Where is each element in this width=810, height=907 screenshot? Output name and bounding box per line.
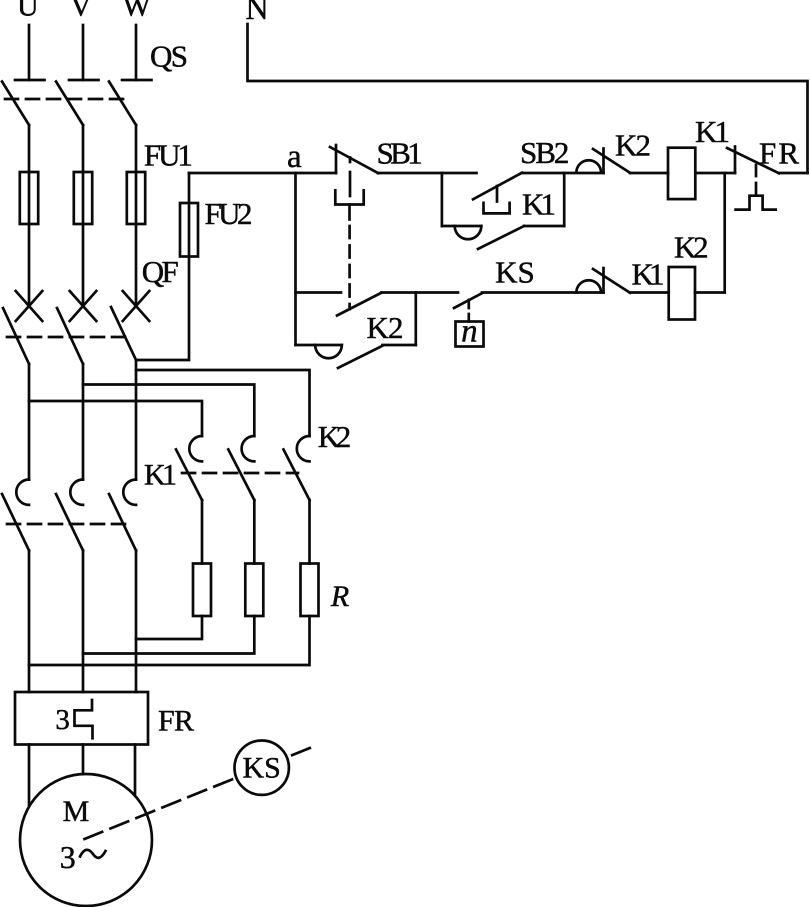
wire U column K1 to FR (28, 551, 31, 693)
svg-text:FU2: FU2 (205, 196, 253, 231)
contact K1 NC blade (593, 269, 630, 293)
wire K1 aux bottom right (524, 225, 564, 228)
switch QS pole U blade (2, 82, 29, 126)
wire U column QS to QF (28, 125, 31, 306)
speed relay KS link (dashed) (85, 748, 312, 840)
pushbutton SB1 link dash upper (349, 158, 352, 163)
contact K2 aux NO blade (338, 346, 383, 368)
contact KS link (dashed) (467, 300, 470, 322)
wire K1 coil to FR contact (695, 172, 735, 175)
contact FR NC blade (727, 148, 779, 173)
contact FR NC fixed tick (734, 147, 737, 174)
svg-text:SB1: SB1 (377, 136, 423, 171)
wire K2 pole 3 to R3 (308, 500, 311, 564)
switch QS pole V blade (56, 82, 83, 126)
thermal relay FR heater symbol (75, 700, 93, 738)
svg-text:R: R (330, 580, 349, 613)
svg-text:K1: K1 (695, 114, 730, 149)
wire K1 NC to K2 coil (630, 291, 669, 294)
svg-text:QS: QS (150, 39, 188, 74)
contact K2 NC fixed tick (602, 149, 605, 174)
svg-text:N: N (245, 0, 268, 26)
wire FU2 tap from W column (136, 173, 189, 360)
contactor K1 main pole U blade (2, 494, 29, 551)
svg-text:FR: FR (158, 705, 194, 738)
wire W column QS to QF (135, 125, 138, 306)
wire U column QF to K1 (28, 364, 31, 480)
contactor K2 main pole 1 arc (189, 436, 202, 461)
contactor K1 main pole V blade (56, 494, 83, 551)
breaker QF mechanical link (dashed) (7, 336, 130, 339)
wire R1 to W column (136, 616, 202, 639)
svg-text:K1: K1 (632, 257, 665, 292)
wire FR to motor terminal 1 (28, 745, 31, 811)
svg-text:QF: QF (142, 254, 179, 289)
svg-text:FU1: FU1 (144, 137, 193, 172)
svg-text:K1: K1 (522, 187, 556, 222)
wire FR contact to N bus (779, 172, 808, 175)
coil K2 (669, 267, 695, 320)
svg-text:K2: K2 (367, 310, 404, 345)
pushbutton SB1 link stem upper (349, 172, 352, 196)
svg-text:U: U (17, 0, 39, 23)
svg-text:K2: K2 (615, 128, 651, 163)
thermal relay FR heater box (15, 692, 148, 745)
switch QS pole U bar (15, 79, 45, 82)
coil K1 (668, 148, 695, 199)
pushbutton SB2 NO blade (473, 173, 522, 200)
wire W column K1 to FR (135, 551, 138, 693)
wire branch V to K2 pole 2 (83, 385, 254, 437)
resistor R3 (301, 564, 319, 617)
resistor R1 (193, 564, 211, 617)
svg-text:a: a (287, 139, 302, 175)
resistor R2 (245, 564, 263, 617)
pushbutton SB1 cap (335, 190, 363, 204)
pushbutton SB2 stem (496, 186, 499, 202)
svg-text:n: n (461, 314, 478, 350)
wire branch U to K2 pole 1 (29, 401, 202, 436)
speed sensor n box (456, 322, 484, 347)
breaker QF pole U cross (16, 291, 43, 321)
wire control row 2 segment 1 (296, 291, 342, 294)
contact K1 aux NO arc (455, 226, 482, 239)
wire control row 2 segment 2 (382, 291, 459, 294)
switch QS mechanical link (dashed) (5, 98, 123, 101)
wire V supply stub (82, 25, 85, 80)
svg-text:KS: KS (495, 255, 535, 290)
contact FR thermal symbol (736, 196, 776, 210)
fuse FU1 pole V (74, 172, 92, 224)
contactor K1 main pole W blade (109, 494, 136, 551)
contactor K1 main pole W arc (123, 480, 136, 505)
contactor K1 main pole V arc (70, 480, 83, 505)
fuse FU2 (180, 203, 198, 257)
wire branch W to K2 pole 3 (136, 370, 310, 436)
wire row2 drop from row1 (723, 173, 726, 293)
contactor K2 main pole 2 blade (228, 450, 254, 501)
fuse FU1 pole W (127, 172, 145, 224)
wire K2 aux right rise (414, 293, 417, 346)
wire K2 NC to K1 coil (630, 172, 668, 175)
motor M circle (20, 774, 152, 906)
wire V column QS to QF (82, 125, 85, 306)
wire V column K1 to FR (82, 551, 85, 693)
wire N drop (248, 24, 808, 173)
switch QS pole W blade (109, 82, 136, 126)
pushbutton SB1 NC fixed tick (335, 145, 338, 173)
wire K1 aux bottom left (442, 225, 481, 228)
contactor K2 main pole 3 arc (297, 436, 310, 461)
wire K2 coil to drop (695, 291, 725, 294)
pushbutton SB1 cap stem lower (348, 205, 351, 220)
wire W supply stub (135, 25, 138, 80)
wire R2 to V column (83, 616, 254, 654)
switch QS pole W bar (122, 79, 152, 82)
contact KS NO blade (454, 293, 482, 308)
breaker QF pole W blade (111, 307, 136, 360)
contact K1 aux NO blade (478, 226, 524, 249)
wire W column QF to K1 (135, 360, 138, 480)
contact K1 NC fixed tick (602, 268, 605, 293)
breaker QF pole W cross (123, 291, 150, 321)
pushbutton SB1 link (dashed) to NO contact (348, 226, 351, 309)
contactor K2 main pole 1 blade (176, 450, 202, 501)
svg-text:K2: K2 (318, 419, 352, 454)
svg-text:KS: KS (243, 752, 281, 785)
wire K2 pole 1 to R1 (201, 500, 204, 564)
svg-text:K2: K2 (674, 230, 709, 265)
pushbutton SB2 cap (484, 203, 510, 214)
pushbutton SB1 NO blade (337, 293, 382, 316)
contactor K2 main pole 2 arc (242, 436, 255, 461)
wire K2 aux bottom right (383, 344, 416, 347)
svg-text:M: M (63, 795, 90, 828)
breaker QF pole V cross (70, 291, 97, 321)
svg-text:W: W (123, 0, 152, 23)
wire R3 to U column (29, 616, 310, 665)
contact K2 NC blade (593, 149, 630, 173)
svg-text:3: 3 (60, 839, 76, 875)
wire K1 aux branch left drop (441, 173, 444, 226)
svg-text:K1: K1 (144, 459, 177, 492)
wire FR to motor terminal 2 (82, 745, 85, 781)
contact K2 aux NO arc (315, 345, 342, 358)
wire K1 aux branch right rise (563, 173, 566, 226)
breaker QF pole V blade (57, 308, 83, 364)
wire control row 2 segment 3 (482, 291, 604, 294)
wire FR to motor terminal 3 (134, 745, 137, 801)
wire control row 1 left (189, 172, 336, 175)
wire V column QF to K1 (82, 364, 85, 480)
contactor K2 main pole 3 blade (284, 450, 310, 501)
wire K2 pole 2 to R2 (253, 500, 256, 564)
svg-text:SB2: SB2 (520, 135, 569, 170)
fuse FU1 pole U (20, 172, 38, 224)
svg-text:FR: FR (759, 136, 799, 171)
speed relay KS circle (235, 741, 289, 795)
wire U supply stub (28, 25, 31, 80)
wire K2 aux bottom left (296, 344, 342, 347)
contactor K2 main link (dashed) (182, 472, 298, 475)
contactor K1 main pole U arc (16, 480, 29, 505)
contact K1 NC arc (576, 280, 601, 292)
contactor K1 main link (dashed) (7, 523, 127, 526)
contact FR link (dashed) (755, 165, 758, 196)
svg-text:3: 3 (55, 704, 70, 736)
wire control row 1 SB2 to K2 NC (522, 172, 604, 175)
wire control row 1 SB1 to SB2 (378, 172, 477, 175)
motor tilde (80, 850, 106, 858)
contact K2 NC arc (576, 160, 601, 172)
breaker QF pole U blade (3, 308, 29, 364)
switch QS pole V bar (69, 79, 99, 82)
wire node a drop (294, 173, 297, 345)
svg-text:V: V (70, 0, 92, 23)
pushbutton SB1 NC blade (330, 147, 378, 173)
